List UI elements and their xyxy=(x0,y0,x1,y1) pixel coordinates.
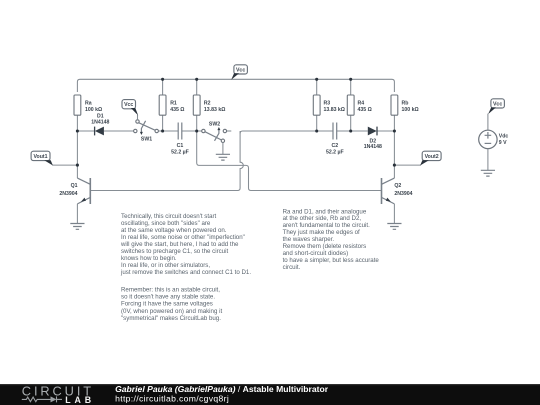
wire node A to D1 xyxy=(77,130,94,132)
svg-text:2N3904: 2N3904 xyxy=(59,191,77,197)
resistor Rb xyxy=(391,95,398,115)
wire top rail Vcc xyxy=(77,79,394,92)
resistor R2 xyxy=(196,79,198,131)
svg-text:so it doesn't have any stable: so it doesn't have any stable state. xyxy=(121,294,215,301)
wire Ra bottom to node A xyxy=(76,115,78,131)
capacitor C1 xyxy=(178,123,182,140)
resistor Ra xyxy=(74,95,81,115)
svg-text:switches to precharge C1, so t: switches to precharge C1, so the circuit xyxy=(121,248,228,255)
svg-text:Q2: Q2 xyxy=(394,183,401,189)
net flag Vout1 xyxy=(31,151,53,165)
node dot R1 top xyxy=(161,78,164,81)
switch SW1 xyxy=(134,120,159,135)
svg-text:aren't fundamental to the circ: aren't fundamental to the circuit. xyxy=(283,222,370,229)
svg-text:Vcc: Vcc xyxy=(493,101,502,107)
svg-text:1N4148: 1N4148 xyxy=(91,120,109,126)
ground at V1 xyxy=(481,170,495,176)
ground at SW2 xyxy=(216,154,230,160)
node dot Vout1 tap xyxy=(76,164,79,167)
svg-text:SW1: SW1 xyxy=(141,136,152,142)
wire D1 to SW1 xyxy=(104,130,134,132)
svg-text:C2: C2 xyxy=(331,143,338,149)
annotation note right xyxy=(283,208,380,271)
svg-text:and short-circuit diodes): and short-circuit diodes) xyxy=(283,250,349,257)
svg-text:In real life, some noise or ot: In real life, some noise or other "imper… xyxy=(121,234,245,241)
wire node A down to Q1 collector xyxy=(76,131,78,178)
svg-text:52.2 µF: 52.2 µF xyxy=(171,150,189,156)
svg-text:13.83 kΩ: 13.83 kΩ xyxy=(204,107,225,113)
svg-text:Forcing it have the same volta: Forcing it have the same voltages xyxy=(121,301,213,308)
wire Vout1 to node xyxy=(52,164,77,166)
net flag Vcc at top rail xyxy=(231,65,247,80)
svg-text:R2: R2 xyxy=(204,101,211,107)
node dot R4 top xyxy=(349,78,352,81)
transistor Q2 2N3904 xyxy=(382,178,395,204)
svg-text:oscillating, since both "sides: oscillating, since both "sides" are xyxy=(121,220,211,227)
footer bar xyxy=(0,384,540,405)
svg-text:"symmetrical" makes CircuitLab: "symmetrical" makes CircuitLab bug. xyxy=(121,315,221,322)
svg-text:Vcc: Vcc xyxy=(236,68,245,74)
svg-text:52.2 µF: 52.2 µF xyxy=(326,150,344,156)
svg-text:(0V, when powered on) and maki: (0V, when powered on) and making it xyxy=(121,308,222,315)
wire Q1 emitter to ground xyxy=(76,204,78,224)
svg-text:Rb: Rb xyxy=(402,101,409,107)
svg-text:SW2: SW2 xyxy=(209,121,220,127)
svg-text:Remember: this is an astable c: Remember: this is an astable circuit, xyxy=(121,287,220,294)
node dot R3/C2 xyxy=(315,129,318,132)
svg-text:Technically, this circuit does: Technically, this circuit doesn't start xyxy=(121,213,217,220)
svg-text:100 kΩ: 100 kΩ xyxy=(85,107,102,113)
svg-text:Ra: Ra xyxy=(85,101,92,107)
wire C2 to R4 node xyxy=(337,130,368,132)
svg-text:In real life, or in other simu: In real life, or in other simulators, xyxy=(121,262,210,269)
node dot R2 top xyxy=(195,78,198,81)
node dot Ra/D1 xyxy=(76,129,79,132)
wire node C down with hop, to Q1 base xyxy=(90,131,243,191)
svg-text:LAB: LAB xyxy=(65,395,95,405)
svg-text:9 V: 9 V xyxy=(499,140,507,146)
net flag Vcc at V1 xyxy=(488,99,504,114)
wire Q2 emitter to ground xyxy=(393,204,395,224)
svg-text:knows how to begin.: knows how to begin. xyxy=(121,255,177,262)
wire D2 to Rb node xyxy=(377,130,394,132)
wire SW1 to C1 xyxy=(158,130,178,132)
svg-text:Vdc: Vdc xyxy=(499,134,509,140)
node dot R1 bottom xyxy=(161,129,164,132)
switch SW2 xyxy=(202,127,232,143)
svg-text:100 kΩ: 100 kΩ xyxy=(402,107,419,113)
voltage source V1 Vdc 9V xyxy=(479,114,497,171)
svg-text:1N4148: 1N4148 xyxy=(364,144,382,150)
wire SW2 lower throw to ground xyxy=(222,143,224,155)
svg-text:at the same voltage when power: at the same voltage when powered on. xyxy=(121,227,227,234)
svg-text:just remove the switches and c: just remove the switches and connect C1 … xyxy=(120,269,251,276)
annotation note left paragraph 2 xyxy=(121,287,222,322)
net flag Vout2 xyxy=(420,151,441,165)
svg-text:13.83 kΩ: 13.83 kΩ xyxy=(324,107,345,113)
node dot R3 top xyxy=(315,78,318,81)
svg-text:435 Ω: 435 Ω xyxy=(358,107,372,113)
resistor R4 xyxy=(350,79,352,131)
svg-text:http://circuitlab.com/cgvq8rj: http://circuitlab.com/cgvq8rj xyxy=(115,393,229,403)
ground at Q2 xyxy=(387,224,401,230)
svg-text:at the other side, Rb and D2,: at the other side, Rb and D2, xyxy=(283,215,362,222)
wire node to Vout2 xyxy=(394,164,421,166)
svg-text:D1: D1 xyxy=(97,113,104,119)
wire node D down to Q2 collector xyxy=(393,131,395,178)
svg-text:R1: R1 xyxy=(170,101,177,107)
CircuitLab logo schematic squiggle xyxy=(22,396,62,402)
node dot Vout2 tap xyxy=(393,164,396,167)
node dot Rb/D2 xyxy=(393,129,396,132)
svg-text:R3: R3 xyxy=(324,101,331,107)
svg-text:Vcc: Vcc xyxy=(124,102,133,108)
svg-text:435 Ω: 435 Ω xyxy=(170,107,184,113)
svg-text:Vout2: Vout2 xyxy=(425,154,439,160)
wire mid rail right section xyxy=(240,131,333,134)
svg-text:2N3904: 2N3904 xyxy=(394,191,412,197)
diode D2 1N4148 xyxy=(376,127,378,136)
diode D1 1N4148 xyxy=(94,127,96,136)
wire Rb bottom to node D xyxy=(393,115,395,131)
svg-text:will give the start, but here,: will give the start, but here, I had to … xyxy=(120,241,239,248)
resistor R3 xyxy=(316,79,318,131)
svg-text:Q1: Q1 xyxy=(71,183,78,189)
annotation note left paragraph 1 xyxy=(120,213,251,276)
ground at Q1 xyxy=(70,224,84,230)
svg-text:the waves sharper.: the waves sharper. xyxy=(283,236,335,243)
wire C1 to node B xyxy=(182,130,202,132)
resistor R1 xyxy=(162,79,164,131)
node dot R2/SW2/C1 xyxy=(195,129,198,132)
capacitor C2 xyxy=(333,123,337,140)
net flag Vcc at SW1 xyxy=(122,100,138,120)
svg-text:R4: R4 xyxy=(358,101,365,107)
transistor Q1 2N3904 xyxy=(77,178,90,204)
svg-text:to have a simpler, but less ac: to have a simpler, but less accurate xyxy=(283,257,380,264)
svg-text:C1: C1 xyxy=(177,143,184,149)
svg-text:circuit.: circuit. xyxy=(283,264,301,271)
node dot R4 bottom xyxy=(349,129,352,132)
wire node B down and over to Q2 base xyxy=(197,131,382,191)
svg-text:Vout1: Vout1 xyxy=(33,154,47,160)
